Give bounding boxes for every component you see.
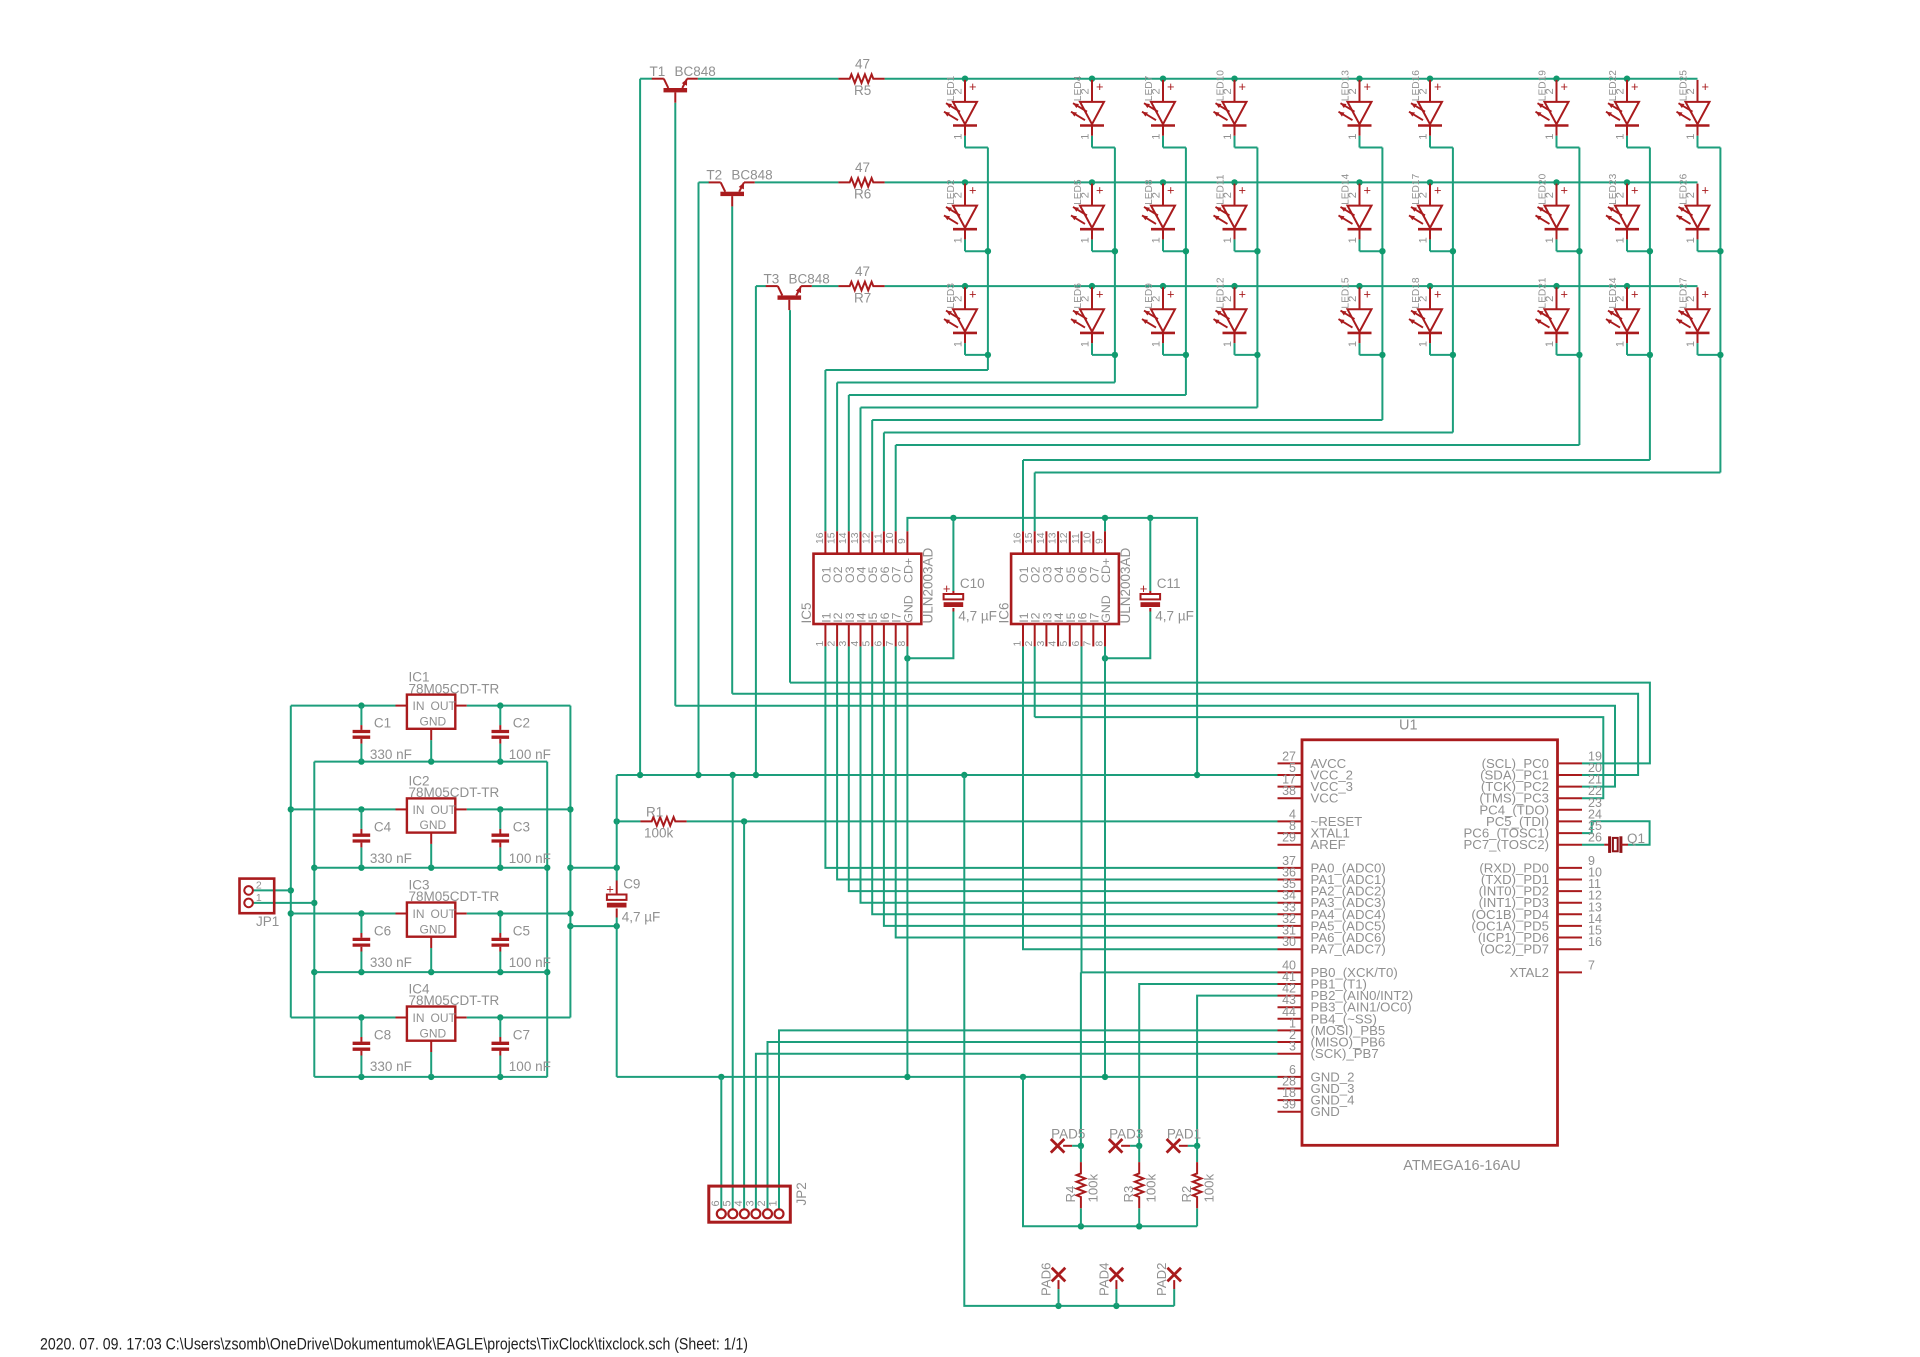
svg-text:+: + xyxy=(1364,79,1371,94)
pin IC6 pin4 stub xyxy=(1057,624,1059,646)
svg-text:2: 2 xyxy=(1615,296,1627,302)
junction column 6 row2 cathode xyxy=(1450,248,1456,254)
svg-text:4: 4 xyxy=(850,641,861,647)
svg-text:1: 1 xyxy=(1615,133,1627,139)
IC IC6 ULN2003AD body xyxy=(1011,554,1119,624)
svg-text:2: 2 xyxy=(1418,88,1430,94)
junction PAD6 xyxy=(1055,1303,1061,1309)
junction C2 top xyxy=(497,702,503,708)
svg-text:6: 6 xyxy=(710,1200,722,1206)
svg-text:78M05CDT-TR: 78M05CDT-TR xyxy=(409,889,500,904)
junction PAD3 xyxy=(1136,1143,1142,1149)
pin IC6 pin14 stub xyxy=(1045,531,1047,553)
svg-text:GND: GND xyxy=(1099,595,1113,623)
pin U1 41 PB1_(T1) stub xyxy=(1278,983,1303,985)
svg-text:1: 1 xyxy=(1222,237,1234,243)
capacitor C2 xyxy=(499,725,501,730)
junction LED10 anode xyxy=(1231,76,1237,82)
junction LED16 anode xyxy=(1427,76,1433,82)
junction GND bus right rail3 xyxy=(544,969,550,975)
pin U1 26 PC7_(TOSC2) stub xyxy=(1558,844,1583,846)
junction column 3 row3 cathode xyxy=(1183,352,1189,358)
svg-text:PAD5: PAD5 xyxy=(1051,1127,1085,1142)
pin IC6 pin13 stub xyxy=(1057,531,1059,553)
junction LED23 anode xyxy=(1624,179,1630,185)
wire JP2 pin4 to RESET xyxy=(743,821,745,1209)
wire JP1 pin1 wire xyxy=(253,902,314,904)
svg-text:+: + xyxy=(1167,79,1174,94)
junction column 6 row3 cathode xyxy=(1450,352,1456,358)
svg-text:2: 2 xyxy=(1615,192,1627,198)
pin U1 14 (OC1A)_PD5 stub xyxy=(1558,925,1583,927)
wire U1 PC7 to Q1 xyxy=(1582,844,1604,846)
svg-text:+: + xyxy=(1239,183,1246,198)
junction rail3 Cin xyxy=(358,969,364,975)
pin U1 38 VCC stub xyxy=(1278,797,1303,799)
junction column 8 row2 cathode xyxy=(1647,248,1653,254)
wire PAD6 lead xyxy=(1058,1280,1060,1289)
junction R1 left +5V xyxy=(614,818,620,824)
pin U1 43 PB3_(AIN1/OC0) stub xyxy=(1278,1006,1303,1008)
svg-text:+: + xyxy=(1434,183,1441,198)
junction LED12 anode xyxy=(1231,283,1237,289)
junction column 5 row3 cathode xyxy=(1379,352,1385,358)
junction VIN bus JP1 pin2 xyxy=(288,887,294,893)
svg-text:2: 2 xyxy=(1151,88,1163,94)
svg-text:100k: 100k xyxy=(1202,1173,1217,1202)
junction +5V rail T3 collector xyxy=(753,772,759,778)
junction column 4 row3 cathode xyxy=(1254,352,1260,358)
svg-text:10: 10 xyxy=(1083,532,1094,544)
svg-text:ULN2003AD: ULN2003AD xyxy=(1118,547,1133,623)
svg-text:1: 1 xyxy=(1151,341,1163,347)
svg-text:+: + xyxy=(1702,183,1709,198)
svg-text:15: 15 xyxy=(827,532,838,544)
wire PB0 vertical to PAD5 xyxy=(1080,972,1082,1145)
svg-text:9: 9 xyxy=(897,538,908,544)
wire IC6 I2 to U1 PC3 xyxy=(1035,717,1604,798)
svg-text:C9: C9 xyxy=(623,877,640,892)
svg-text:PAD1: PAD1 xyxy=(1167,1127,1201,1142)
pin IC6 pin15 stub xyxy=(1034,531,1036,553)
wire IC5 I5 to U1 PA4 xyxy=(872,646,1277,914)
junction PAD4 xyxy=(1113,1303,1119,1309)
svg-text:OUT: OUT xyxy=(431,803,457,817)
junction column 8 row3 cathode xyxy=(1647,352,1653,358)
svg-text:2: 2 xyxy=(1347,296,1359,302)
resistor R2 xyxy=(1193,1162,1202,1208)
svg-text:CD+: CD+ xyxy=(901,558,915,583)
LED LED7 xyxy=(1162,80,1164,102)
wire T3 base vertical xyxy=(789,310,791,682)
wire R3 bottom lead xyxy=(1138,1208,1140,1226)
svg-text:2: 2 xyxy=(756,1200,768,1206)
wire PAD4 lead xyxy=(1115,1280,1117,1289)
svg-text:15: 15 xyxy=(1024,532,1035,544)
svg-text:+: + xyxy=(969,183,976,198)
svg-text:2020. 07. 09. 17:03 C:\Users\: 2020. 07. 09. 17:03 C:\Users\zsomb\OneDr… xyxy=(40,1335,748,1354)
svg-text:+: + xyxy=(1364,286,1371,301)
wire C9 bottom link xyxy=(570,925,616,927)
LED LED26 xyxy=(1697,184,1699,206)
junction GND bus rail3 xyxy=(311,969,317,975)
wire cascade column 4 to ULN output xyxy=(861,407,1258,409)
pin U1 42 PB2_(AIN0/INT2) stub xyxy=(1278,995,1303,997)
svg-text:7: 7 xyxy=(1588,958,1595,972)
pin IC5 pin14 stub xyxy=(848,531,850,553)
LED LED24 xyxy=(1626,287,1628,309)
svg-text:+: + xyxy=(606,882,614,897)
svg-text:3: 3 xyxy=(1036,641,1047,647)
wire LED column 2 cathode bus xyxy=(1091,136,1093,148)
svg-text:IN: IN xyxy=(413,1011,425,1025)
pin U1 1 (MOSI)_PB5 stub xyxy=(1278,1029,1303,1031)
svg-text:+: + xyxy=(1434,286,1441,301)
junction LED5 anode xyxy=(1089,179,1095,185)
wire R4 top lead xyxy=(1080,1146,1082,1162)
wire PAD1 to R2 xyxy=(1179,1145,1188,1147)
wire LED row1 anode rail xyxy=(885,78,1698,80)
wire C10 bottom xyxy=(907,612,953,659)
junction PAD5 xyxy=(1078,1143,1084,1149)
wire C11 top xyxy=(1149,518,1151,591)
wire T3 emitter to R7 xyxy=(812,285,839,287)
svg-text:C10: C10 xyxy=(960,576,985,591)
junction LED11 anode xyxy=(1231,179,1237,185)
svg-text:2: 2 xyxy=(1685,192,1697,198)
svg-text:1: 1 xyxy=(1080,133,1092,139)
svg-text:U1: U1 xyxy=(1399,718,1418,734)
svg-text:IC6: IC6 xyxy=(997,602,1012,623)
wire JP2 pin3 to U1 SCK xyxy=(756,1054,1278,1210)
svg-text:GND: GND xyxy=(901,595,915,623)
pin U1 23 PC4_(TDO) stub xyxy=(1558,809,1583,811)
pin U1 18 GND_4 stub xyxy=(1278,1099,1303,1101)
LED LED10 xyxy=(1234,80,1236,102)
capacitor C3 xyxy=(499,829,501,834)
svg-text:2: 2 xyxy=(1222,88,1234,94)
LED LED27 xyxy=(1697,287,1699,309)
junction +5V bus C9 top link xyxy=(567,865,573,871)
junction LED15 anode xyxy=(1356,283,1362,289)
svg-text:100 nF: 100 nF xyxy=(509,747,551,762)
junction LED22 anode xyxy=(1624,76,1630,82)
pin U1 2 (MISO)_PB6 stub xyxy=(1278,1041,1303,1043)
svg-text:2: 2 xyxy=(1685,88,1697,94)
junction CD+ IC6 pin9 xyxy=(1102,515,1108,521)
pin U1 6 GND_2 stub xyxy=(1278,1076,1303,1078)
svg-text:2: 2 xyxy=(1615,88,1627,94)
svg-text:PAD3: PAD3 xyxy=(1109,1127,1143,1142)
svg-text:GND: GND xyxy=(420,714,447,728)
junction C11 to IC6 GND xyxy=(1102,655,1108,661)
svg-text:IN: IN xyxy=(413,803,425,817)
wire T1 collector to +5V rail xyxy=(640,78,652,80)
wire JP2 pin2 to U1 MISO xyxy=(768,1042,1278,1209)
svg-text:16: 16 xyxy=(1012,532,1023,544)
pin IC6 pin8 stub xyxy=(1104,624,1106,646)
wire C3 leads xyxy=(499,809,501,829)
svg-text:1: 1 xyxy=(815,641,826,647)
pin U1 10 (TXD)_PD1 stub xyxy=(1558,879,1583,881)
wire LED row2 anode rail xyxy=(885,181,1698,183)
LED LED4 xyxy=(1091,80,1093,102)
svg-text:OUT: OUT xyxy=(431,699,457,713)
pin IC6 pin9 stub xyxy=(1104,531,1106,553)
wire pulldown bottom rail xyxy=(1023,1077,1197,1226)
svg-text:100 nF: 100 nF xyxy=(509,955,551,970)
wire IC6 I2 vertical xyxy=(1034,646,1036,717)
svg-text:BC848: BC848 xyxy=(731,168,772,183)
svg-text:LED17: LED17 xyxy=(1411,173,1422,204)
wire C10 top xyxy=(952,518,954,591)
svg-text:1: 1 xyxy=(1080,237,1092,243)
wire cascade column 3 to ULN output xyxy=(849,394,1186,396)
wire IC3 OUT row xyxy=(467,913,571,915)
pin U1 22 (TMS)_PC3 stub xyxy=(1558,797,1583,799)
junction rail4 Cin xyxy=(358,1074,364,1080)
svg-text:LED11: LED11 xyxy=(1216,174,1227,205)
svg-text:14: 14 xyxy=(1036,532,1047,544)
svg-text:R7: R7 xyxy=(854,290,871,305)
junction column 2 row2 cathode xyxy=(1112,248,1118,254)
IC IC4 78M05CDT-TR body xyxy=(407,1007,455,1041)
wire IC1 GND pin xyxy=(430,740,432,762)
pad PAD2 xyxy=(1167,1268,1181,1282)
svg-text:30: 30 xyxy=(1282,935,1296,949)
svg-text:+: + xyxy=(1364,183,1371,198)
svg-text:T1: T1 xyxy=(650,64,666,79)
pin IC5 pin15 stub xyxy=(836,531,838,553)
pin U1 7 XTAL2 stub xyxy=(1558,971,1583,973)
svg-text:C3: C3 xyxy=(513,819,530,834)
svg-text:78M05CDT-TR: 78M05CDT-TR xyxy=(409,785,500,800)
pin IC6 pin10 stub xyxy=(1092,531,1094,553)
svg-text:11: 11 xyxy=(1071,533,1082,544)
wire IC5 GND to GND rail xyxy=(906,646,908,1077)
LED LED2 xyxy=(964,184,966,206)
pin IC6 pin6 stub xyxy=(1081,624,1083,646)
wire C11 bottom xyxy=(1105,612,1150,659)
svg-text:LED14: LED14 xyxy=(1341,173,1352,204)
capacitor C8 xyxy=(360,1037,362,1042)
svg-text:1: 1 xyxy=(1418,341,1430,347)
wire JP2 pin6 to GND xyxy=(720,1077,722,1209)
svg-text:R4: R4 xyxy=(1063,1186,1078,1203)
pin U1 4 ~RESET stub xyxy=(1278,820,1303,822)
pin U1 21 (TCK)_PC2 stub xyxy=(1558,786,1583,788)
svg-text:IN: IN xyxy=(413,699,425,713)
wire GND rail 2 xyxy=(314,867,547,869)
wire PAD2 lead xyxy=(1173,1280,1175,1289)
svg-text:R2: R2 xyxy=(1179,1186,1194,1203)
junction LED8 anode xyxy=(1160,179,1166,185)
svg-text:8: 8 xyxy=(1094,641,1105,647)
wire IC6 GND to GND rail xyxy=(1104,646,1106,1077)
svg-text:LED16: LED16 xyxy=(1411,70,1422,101)
svg-text:+: + xyxy=(1167,286,1174,301)
wire IC6 CD+ to +5V line xyxy=(1104,518,1106,531)
svg-text:6: 6 xyxy=(873,641,884,647)
svg-text:5: 5 xyxy=(721,1200,733,1206)
svg-text:2: 2 xyxy=(1024,641,1035,647)
wire IC5 I3 to U1 PA2 xyxy=(849,646,1278,891)
connector JP2 xyxy=(709,1186,791,1222)
LED LED15 xyxy=(1359,287,1361,309)
LED LED5 xyxy=(1091,184,1093,206)
pin U1 44 PB4_(~SS) stub xyxy=(1278,1018,1303,1020)
wire U1 PB2 to PAD1 xyxy=(1197,996,1277,1146)
capacitor C1 xyxy=(360,725,362,730)
svg-text:1: 1 xyxy=(953,341,965,347)
svg-text:100k: 100k xyxy=(1085,1173,1100,1202)
wire IC6 I1 to U1 PA7 xyxy=(1023,646,1278,949)
pin IC5 pin9 stub xyxy=(906,531,908,553)
junction rail1 Cout xyxy=(497,758,503,764)
svg-text:1: 1 xyxy=(1347,341,1359,347)
svg-text:1: 1 xyxy=(1685,133,1697,139)
svg-text:+: + xyxy=(1096,183,1103,198)
svg-text:1: 1 xyxy=(1544,341,1556,347)
svg-text:(OC2)_PD7: (OC2)_PD7 xyxy=(1480,942,1549,957)
svg-text:1: 1 xyxy=(1615,237,1627,243)
svg-text:C7: C7 xyxy=(513,1028,530,1043)
capacitor C7 xyxy=(499,1037,501,1042)
pin IC5 pin11 stub xyxy=(883,531,885,553)
junction C3 top xyxy=(497,806,503,812)
wire IC4 IN row xyxy=(291,1017,396,1019)
pin U1 9 (RXD)_PD0 stub xyxy=(1558,867,1583,869)
junction LED21 anode xyxy=(1553,283,1559,289)
pin IC5 pin4 stub xyxy=(860,624,862,646)
wire IC2 GND pin xyxy=(430,844,432,868)
svg-text:BC848: BC848 xyxy=(675,64,716,79)
svg-text:2: 2 xyxy=(1151,296,1163,302)
junction column 1 row2 cathode xyxy=(985,248,991,254)
pin IC5 pin6 stub xyxy=(883,624,885,646)
svg-text:2: 2 xyxy=(1347,88,1359,94)
junction GND bus right rail2 xyxy=(544,865,550,871)
svg-text:100k: 100k xyxy=(644,826,674,841)
svg-text:4: 4 xyxy=(1048,641,1059,647)
wire T3 base to U1 PC0 xyxy=(790,683,1650,764)
svg-text:2: 2 xyxy=(1418,296,1430,302)
svg-text:2: 2 xyxy=(1685,296,1697,302)
junction +5V rail CD+ drop xyxy=(1194,772,1200,778)
pin U1 35 PA2_(ADC2) stub xyxy=(1278,890,1303,892)
pin U1 12 (INT1)_PD3 stub xyxy=(1558,902,1583,904)
junction C4 top xyxy=(358,806,364,812)
junction JP2 RESET xyxy=(741,818,747,824)
svg-text:4: 4 xyxy=(733,1200,745,1206)
svg-text:T2: T2 xyxy=(706,168,722,183)
wire +5V branch down to C9 xyxy=(616,775,618,881)
junction VIN bus IC3 xyxy=(288,910,294,916)
svg-text:7: 7 xyxy=(885,641,896,647)
wire U1 PB1 to PAD3 xyxy=(1139,984,1277,1146)
pin U1 32 PA5_(ADC5) stub xyxy=(1278,925,1303,927)
svg-text:330 nF: 330 nF xyxy=(370,955,412,970)
svg-text:+: + xyxy=(1096,286,1103,301)
svg-text:+: + xyxy=(1140,581,1148,596)
svg-text:GND: GND xyxy=(420,1026,447,1040)
LED LED12 xyxy=(1234,287,1236,309)
svg-text:PAD6: PAD6 xyxy=(1039,1263,1054,1296)
junction column 3 row2 cathode xyxy=(1183,248,1189,254)
pin U1 17 VCC_3 stub xyxy=(1278,786,1303,788)
pin U1 36 PA1_(ADC1) stub xyxy=(1278,879,1303,881)
svg-text:16: 16 xyxy=(815,532,826,544)
wire IC5 I7 to U1 PA6 xyxy=(896,646,1278,937)
svg-text:13: 13 xyxy=(1048,532,1059,544)
wire C6 leads xyxy=(360,914,362,934)
pin IC5 pin3 stub xyxy=(848,624,850,646)
svg-text:1: 1 xyxy=(1418,133,1430,139)
svg-text:2: 2 xyxy=(1347,192,1359,198)
svg-text:+: + xyxy=(943,581,951,596)
junction C10 to IC5 GND xyxy=(904,655,910,661)
svg-text:LED18: LED18 xyxy=(1411,277,1422,308)
pin U1 25 PC6_(TOSC1) stub xyxy=(1558,832,1583,834)
LED LED23 xyxy=(1626,184,1628,206)
junction rail2 GND pin xyxy=(428,865,434,871)
pin U1 3 (SCK)_PB7 stub xyxy=(1278,1053,1303,1055)
junction PAD1 xyxy=(1194,1143,1200,1149)
svg-text:2: 2 xyxy=(1080,296,1092,302)
wire T2 emitter to R6 xyxy=(755,181,839,183)
wire R3 top lead xyxy=(1138,1146,1140,1162)
svg-text:C6: C6 xyxy=(374,924,391,939)
junction C5 top xyxy=(497,910,503,916)
pin IC6 pin2 stub xyxy=(1034,624,1036,646)
svg-text:OUT: OUT xyxy=(431,907,457,921)
svg-text:1: 1 xyxy=(1222,341,1234,347)
svg-text:47: 47 xyxy=(855,264,870,279)
svg-text:LED25: LED25 xyxy=(1679,70,1690,101)
pad PAD5 xyxy=(1051,1139,1065,1153)
svg-text:13: 13 xyxy=(850,532,861,544)
LED LED11 xyxy=(1234,184,1236,206)
wire IC4 GND pin xyxy=(430,1052,432,1077)
junction GND bus rail2 xyxy=(311,865,317,871)
junction LED17 anode xyxy=(1427,179,1433,185)
svg-text:Q1: Q1 xyxy=(1627,831,1645,846)
wire +5V output bus xyxy=(569,706,571,1018)
svg-text:PA7_(ADC7): PA7_(ADC7) xyxy=(1311,942,1386,957)
svg-text:1: 1 xyxy=(1151,133,1163,139)
svg-text:38: 38 xyxy=(1282,784,1296,798)
IC IC3 78M05CDT-TR body xyxy=(407,903,455,937)
junction LED13 anode xyxy=(1356,76,1362,82)
junction rail3 Cout xyxy=(497,969,503,975)
wire cascade column 8 to ULN output xyxy=(1023,459,1650,461)
svg-text:100k: 100k xyxy=(1144,1173,1159,1202)
wire LED row3 anode rail xyxy=(885,285,1698,287)
svg-text:9: 9 xyxy=(1094,538,1105,544)
pin U1 37 PA0_(ADC0) stub xyxy=(1278,867,1303,869)
pin U1 30 PA7_(ADC7) stub xyxy=(1278,948,1303,950)
resistor R1 xyxy=(640,817,686,826)
capacitor C4 xyxy=(360,829,362,834)
junction LED1 anode xyxy=(962,76,968,82)
svg-text:PAD2: PAD2 xyxy=(1154,1263,1169,1296)
svg-text:2: 2 xyxy=(1544,192,1556,198)
wire R4 bottom lead xyxy=(1080,1208,1082,1226)
wire GND rail xyxy=(617,1076,1278,1078)
IC U1 ATMEGA16-16AU body xyxy=(1302,740,1558,1146)
junction rail1 Cin xyxy=(358,758,364,764)
svg-text:R5: R5 xyxy=(854,83,871,98)
